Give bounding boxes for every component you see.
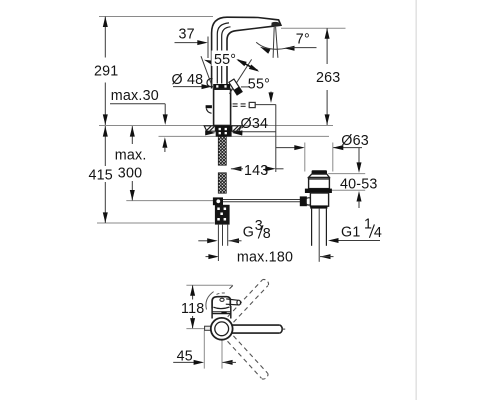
threaded shank lower: [218, 173, 226, 193]
drain inlet block: [300, 196, 307, 206]
shank nut: [215, 205, 230, 225]
aerator tip: [271, 22, 280, 27]
svg-text:55°: 55°: [214, 52, 236, 68]
angle 55 deg right: [229, 57, 281, 103]
bottom view: dim 45: [173, 331, 236, 369]
drain flange: [309, 174, 330, 177]
mounting washer left: [204, 126, 215, 131]
svg-text:Ø34: Ø34: [241, 116, 269, 132]
spout cylinder: [230, 324, 279, 326]
dim 37: [175, 26, 209, 58]
lever swing arc: [206, 292, 214, 310]
supply hoses below: [217, 225, 219, 261]
hose lines inside riser: [217, 23, 229, 84]
dim max.180: [206, 250, 334, 266]
base arrows: [205, 130, 216, 135]
svg-text:G1: G1: [341, 225, 360, 241]
svg-text:8: 8: [263, 226, 271, 242]
svg-text:118: 118: [181, 301, 204, 317]
wire top reference line: [99, 16, 213, 18]
bottom view faucet: [205, 278, 286, 380]
body: [211, 309, 213, 319]
svg-text:7°: 7°: [296, 32, 310, 48]
svg-text:143: 143: [244, 163, 268, 179]
dim max.300: [115, 126, 147, 200]
svg-text:291: 291: [94, 64, 118, 80]
side lever: [206, 105, 212, 108]
angle 55 deg left: [201, 51, 242, 88]
faucet body: [214, 89, 231, 125]
svg-text:G: G: [243, 225, 254, 241]
svg-text:37: 37: [179, 26, 195, 42]
svg-text:4: 4: [374, 225, 382, 241]
tailpipe: [311, 209, 313, 246]
dim 415: [89, 126, 113, 223]
svg-text:Ø63: Ø63: [341, 133, 369, 149]
dim 291: [94, 17, 118, 126]
bottom view: dim 118: [181, 285, 233, 328]
pull-out hose dashes: [230, 103, 232, 108]
lever body (plan): [212, 297, 230, 309]
cartridge band: [213, 84, 230, 89]
svg-text:300: 300: [118, 166, 142, 182]
dim 40-53: [328, 148, 377, 208]
wire 263 top reference line: [281, 27, 346, 29]
svg-text:55°: 55°: [248, 77, 270, 93]
wire counter underside line: [159, 135, 330, 137]
faucet spout outline: [212, 17, 281, 88]
drain pop-up disc: [312, 170, 327, 174]
mounting block: [216, 126, 232, 137]
wire bottom reference line: [97, 222, 215, 224]
svg-text:max.: max.: [115, 148, 147, 164]
mounting washer right: [232, 126, 242, 131]
wire countertop line: [99, 125, 333, 127]
dim G1 1/4: [328, 216, 382, 243]
dim diameter 48: [172, 72, 213, 89]
drain upper body: [309, 178, 330, 189]
svg-text:max.30: max.30: [111, 88, 159, 104]
supply tee fitting: [213, 197, 223, 205]
svg-text:3: 3: [255, 218, 263, 234]
svg-text:max.180: max.180: [237, 250, 293, 266]
svg-text:415: 415: [89, 168, 113, 184]
lever knob: [226, 299, 238, 300]
drain body bottom: [310, 205, 327, 208]
tab: [205, 326, 211, 330]
flange circle: [211, 318, 233, 340]
dim 263: [316, 28, 340, 125]
threaded shank upper: [218, 137, 226, 166]
dim max.30: [110, 88, 168, 152]
swivel arm upper dashed: [228, 278, 270, 322]
drain nut band: [305, 189, 332, 193]
dim diameter 34: [231, 116, 275, 136]
svg-text:1: 1: [364, 216, 372, 232]
swivel arm lower dashed: [228, 336, 270, 381]
divider: [415, 0, 417, 400]
dim diameter 63: [276, 133, 369, 171]
dim 143: [231, 105, 284, 180]
lever/body separation: [213, 307, 229, 309]
svg-text:263: 263: [316, 70, 340, 86]
wire supply level line: [126, 200, 213, 202]
svg-text:Ø 48: Ø 48: [172, 72, 204, 88]
supply pipe to drain: [223, 199, 300, 201]
svg-text:40-53: 40-53: [340, 176, 378, 192]
dim G 3/8: [198, 218, 271, 243]
angle 7 deg: [256, 27, 316, 58]
drain lower body: [310, 193, 328, 206]
